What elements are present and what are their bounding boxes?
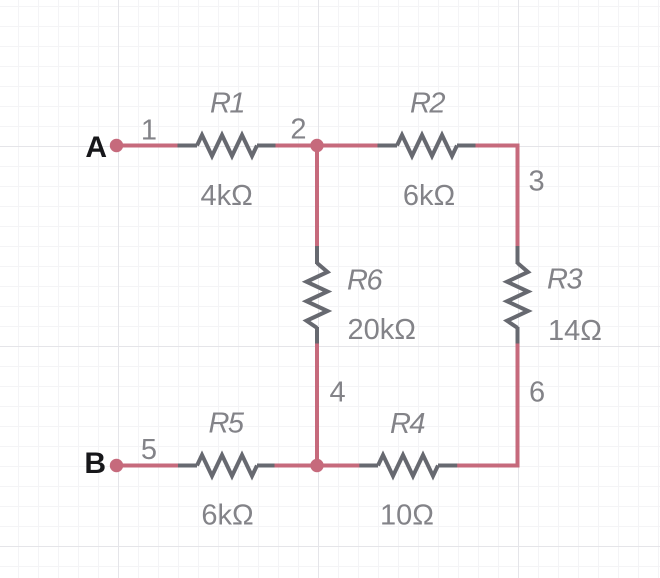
wire R1 right lead to node 2 xyxy=(275,144,317,148)
node A terminal dot xyxy=(110,139,123,152)
svg-text:A: A xyxy=(85,131,107,164)
wire node A to R1 left lead xyxy=(117,144,179,148)
svg-text:1: 1 xyxy=(141,115,157,147)
svg-text:4: 4 xyxy=(330,377,346,409)
wire R3 bottom to corner node 6 and left to R4 right lead xyxy=(457,343,518,466)
svg-text:2: 2 xyxy=(290,114,306,146)
resistor R6 xyxy=(307,246,328,344)
svg-text:14Ω: 14Ω xyxy=(548,315,602,347)
resistor R2 xyxy=(378,135,476,156)
svg-text:R5: R5 xyxy=(208,407,244,439)
svg-text:B: B xyxy=(84,447,106,480)
svg-text:6: 6 xyxy=(529,377,545,409)
wire R6 top to node 2 xyxy=(315,146,319,247)
node 4 junction dot xyxy=(310,459,323,472)
resistor R4 xyxy=(359,455,457,476)
svg-text:R1: R1 xyxy=(210,87,244,119)
svg-text:R3: R3 xyxy=(547,264,582,296)
svg-text:R2: R2 xyxy=(410,87,445,119)
svg-text:6kΩ: 6kΩ xyxy=(403,180,455,212)
svg-text:R4: R4 xyxy=(390,408,425,440)
wire node 4 up to R6 bottom xyxy=(315,344,319,466)
svg-text:R6: R6 xyxy=(347,265,383,297)
svg-text:5: 5 xyxy=(141,434,157,466)
wire node 2 to R2 left lead xyxy=(317,144,378,148)
resistor R1 xyxy=(178,135,276,156)
resistor R5 xyxy=(178,455,275,476)
svg-text:3: 3 xyxy=(529,165,545,197)
svg-text:10Ω: 10Ω xyxy=(380,500,434,532)
svg-text:20kΩ: 20kΩ xyxy=(348,314,416,346)
wire node B to R5 left lead xyxy=(117,464,179,468)
wire R4 left lead to node 4 xyxy=(317,464,360,468)
node B terminal dot xyxy=(110,459,123,472)
svg-text:4kΩ: 4kΩ xyxy=(200,180,252,212)
wire R5 right lead to node 4 xyxy=(275,464,318,468)
wire R2 right lead to corner node 3 and down to R3 top xyxy=(475,146,518,247)
node 2 junction dot xyxy=(310,139,323,152)
resistor R3 xyxy=(507,246,528,344)
svg-text:6kΩ: 6kΩ xyxy=(201,500,253,532)
